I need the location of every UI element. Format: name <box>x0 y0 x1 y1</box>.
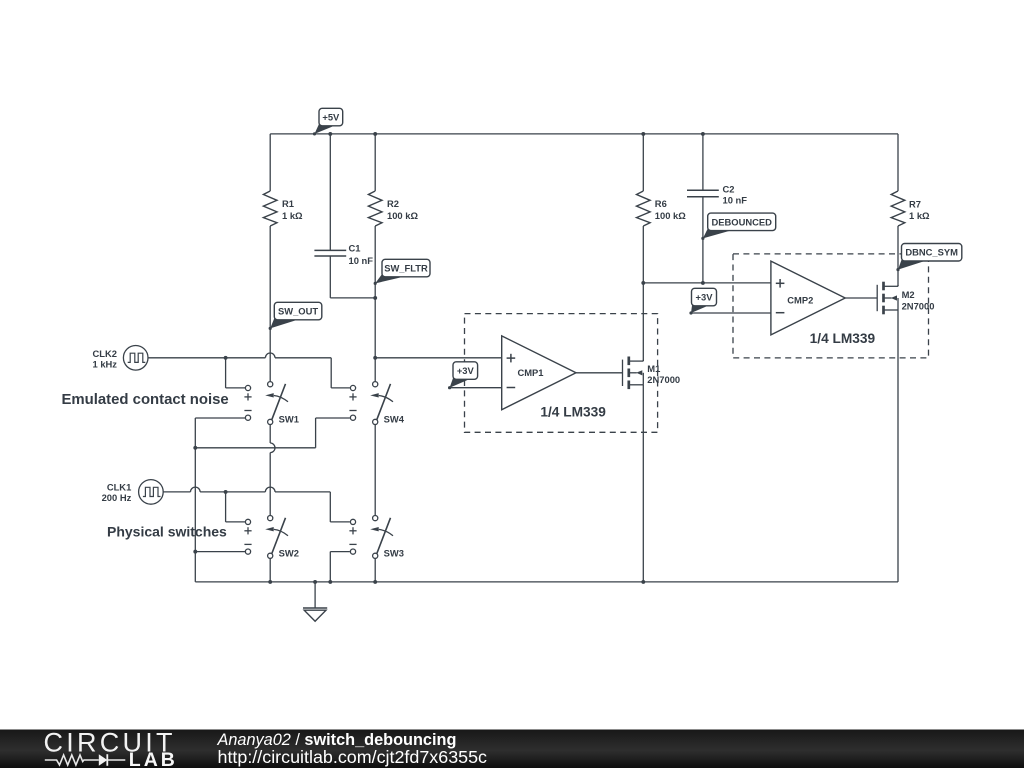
svg-text:+3V: +3V <box>457 365 475 376</box>
svg-text:SW_FLTR: SW_FLTR <box>384 262 428 273</box>
svg-text:1 kΩ: 1 kΩ <box>282 210 303 221</box>
svg-text:DBNC_SYM: DBNC_SYM <box>905 247 958 258</box>
svg-text:1/4 LM339: 1/4 LM339 <box>810 331 876 346</box>
svg-text:LAB: LAB <box>129 749 178 768</box>
svg-text:SW4: SW4 <box>384 413 405 424</box>
svg-text:+3V: +3V <box>696 291 714 302</box>
svg-text:R2: R2 <box>387 198 399 209</box>
svg-text:+5V: +5V <box>322 111 340 122</box>
svg-text:SW_OUT: SW_OUT <box>278 305 318 316</box>
svg-text:SW1: SW1 <box>279 413 299 424</box>
svg-text:M1: M1 <box>647 363 660 374</box>
svg-text:200 Hz: 200 Hz <box>102 492 132 503</box>
svg-text:1/4 LM339: 1/4 LM339 <box>540 405 606 420</box>
svg-text:Physical switches: Physical switches <box>107 523 227 539</box>
svg-text:R7: R7 <box>909 198 921 209</box>
svg-text:R6: R6 <box>655 198 667 209</box>
svg-text:SW2: SW2 <box>279 547 299 558</box>
svg-text:1 kHz: 1 kHz <box>93 359 118 370</box>
svg-text:CLK1: CLK1 <box>107 481 131 492</box>
svg-text:M2: M2 <box>902 289 915 300</box>
svg-text:100 kΩ: 100 kΩ <box>387 210 418 221</box>
svg-text:1 kΩ: 1 kΩ <box>909 210 930 221</box>
svg-text:C2: C2 <box>723 183 735 194</box>
svg-text:10 nF: 10 nF <box>723 195 748 206</box>
svg-text:C1: C1 <box>349 243 361 254</box>
svg-text:CMP1: CMP1 <box>517 367 543 378</box>
svg-text:http://circuitlab.com/cjt2fd7x: http://circuitlab.com/cjt2fd7x6355c <box>218 747 488 767</box>
svg-text:Emulated contact noise: Emulated contact noise <box>62 392 229 408</box>
svg-text:R1: R1 <box>282 198 294 209</box>
svg-text:2N7000: 2N7000 <box>902 300 935 311</box>
svg-text:CMP2: CMP2 <box>787 294 813 305</box>
svg-text:2N7000: 2N7000 <box>647 374 680 385</box>
svg-text:CLK2: CLK2 <box>93 348 117 359</box>
svg-text:100 kΩ: 100 kΩ <box>655 210 686 221</box>
svg-text:SW3: SW3 <box>384 547 404 558</box>
svg-text:DEBOUNCED: DEBOUNCED <box>711 216 772 227</box>
svg-text:10 nF: 10 nF <box>349 255 374 266</box>
